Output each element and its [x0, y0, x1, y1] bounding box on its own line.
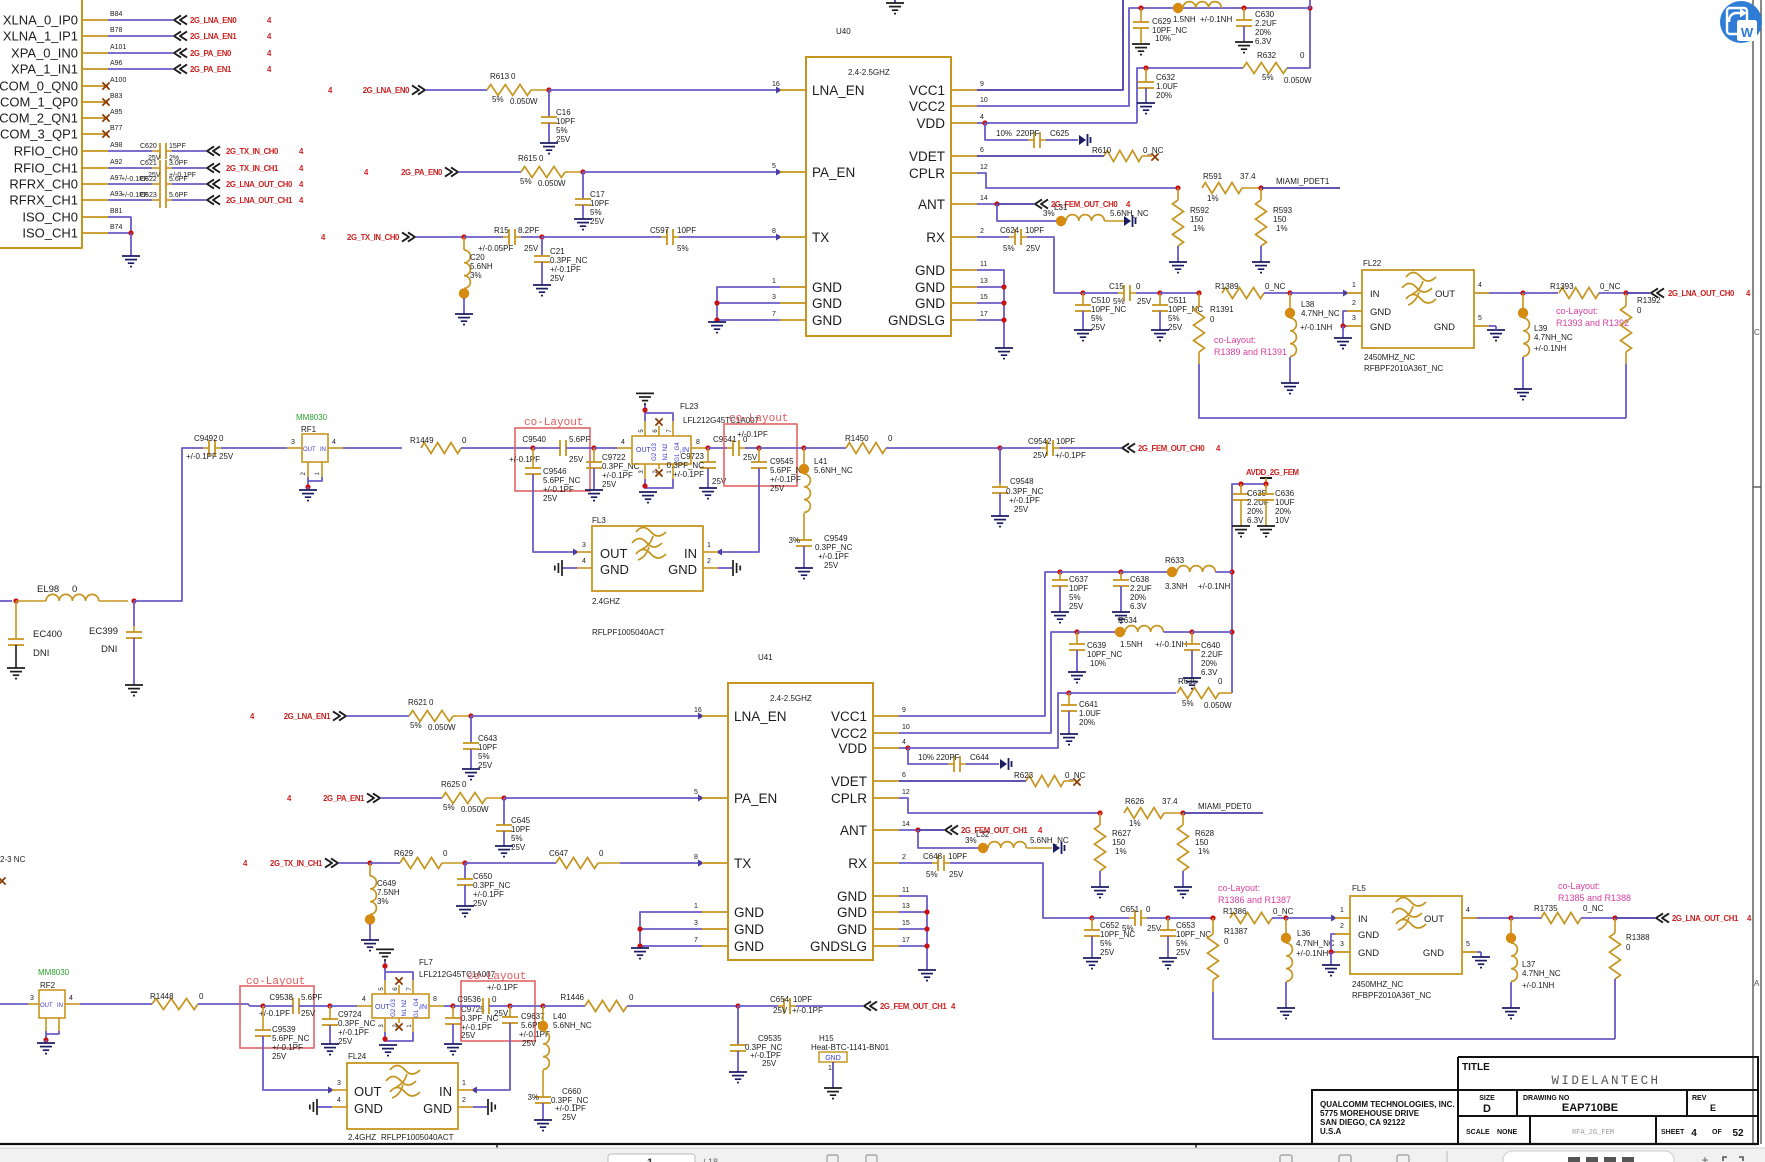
svg-text:25V: 25V: [550, 274, 565, 283]
svg-text:DNI: DNI: [33, 648, 49, 659]
resistor R1450: [846, 443, 886, 454]
wire: [1192, 631, 1232, 633]
svg-text:GND: GND: [1358, 930, 1379, 941]
svg-text:1.5NH: 1.5NH: [1120, 640, 1143, 649]
net MIAMI_PDET0: [1183, 812, 1263, 814]
ground: [1159, 957, 1177, 959]
wire: [240, 1004, 263, 1006]
wire GND bus: [640, 912, 702, 948]
svg-text:+/-0.1NH: +/-0.1NH: [1300, 323, 1332, 332]
wire: [1160, 292, 1199, 294]
ground: [1074, 329, 1092, 331]
node: [1196, 290, 1201, 295]
ground: [1277, 1007, 1295, 1009]
wire: [985, 123, 1028, 140]
svg-text:+/-0.1PF: +/-0.1PF: [338, 1028, 369, 1037]
svg-text:+/-0.1NH: +/-0.1NH: [1296, 949, 1328, 958]
svg-text:R635: R635: [1178, 677, 1198, 686]
ground: [1112, 611, 1130, 613]
capacitor C651: [1134, 910, 1136, 926]
node: [1508, 915, 1513, 920]
resistor R615: [521, 167, 565, 178]
svg-text:RFRX_CH0: RFRX_CH0: [9, 177, 78, 192]
svg-text:2G_PA_EN1: 2G_PA_EN1: [190, 65, 232, 74]
wire FL5 gnd5: [1477, 951, 1481, 953]
svg-text:XLNA_1_IP1: XLNA_1_IP1: [3, 29, 78, 44]
wire: [918, 830, 978, 848]
wire: [1168, 917, 1213, 919]
svg-text:RF2: RF2: [40, 981, 56, 990]
capacitor C652: [1091, 918, 1093, 930]
node: [801, 445, 806, 450]
svg-text:B78: B78: [110, 27, 123, 34]
svg-text:0.3PF_NC: 0.3PF_NC: [550, 256, 588, 265]
svg-text:+/-0.1PF: +/-0.1PF: [487, 983, 518, 992]
capacitor C9535: [737, 1006, 739, 1045]
svg-text:1%: 1%: [1129, 819, 1141, 828]
svg-text:PA_EN: PA_EN: [734, 791, 777, 806]
svg-text:VCC2: VCC2: [831, 726, 867, 741]
wire: [908, 748, 948, 764]
svg-text:C625: C625: [1050, 129, 1070, 138]
wire: [966, 763, 999, 765]
svg-text:GND: GND: [1358, 948, 1379, 959]
svg-text:3: 3: [291, 439, 295, 446]
wire: [582, 205, 584, 219]
capacitor C15: [1123, 285, 1125, 301]
svg-text:C17: C17: [590, 190, 605, 199]
svg-text:C630: C630: [1255, 10, 1275, 19]
node: [637, 926, 642, 931]
ground: [361, 939, 379, 941]
svg-text:2.2UF: 2.2UF: [1255, 19, 1277, 28]
svg-text:0: 0: [599, 849, 604, 858]
svg-text:2: 2: [980, 228, 984, 235]
svg-text:R615: R615: [518, 154, 538, 163]
svg-text:9: 9: [902, 707, 906, 714]
inductor C649 7.5NH: [369, 863, 371, 876]
wire: [950, 863, 1092, 918]
svg-text:GND: GND: [600, 562, 629, 577]
svg-text:52: 52: [1732, 1128, 1744, 1139]
node: [367, 860, 372, 865]
svg-text:RX: RX: [926, 230, 945, 245]
svg-text:6: 6: [980, 147, 984, 154]
wire ANT U40: [977, 203, 997, 205]
ground: [1060, 733, 1078, 735]
frame zone tick: [1753, 486, 1761, 488]
svg-text:C643: C643: [478, 734, 498, 743]
svg-text:2G_TX_IN_CH0: 2G_TX_IN_CH0: [226, 147, 279, 156]
svg-text:6.3V: 6.3V: [1201, 668, 1218, 677]
capacitor C9545: [758, 448, 760, 462]
node: [1210, 915, 1215, 920]
frame zone tick bottom: [496, 1144, 498, 1149]
svg-text:1: 1: [647, 1157, 653, 1162]
svg-text:25V: 25V: [1069, 602, 1084, 611]
wire: [718, 567, 732, 569]
svg-text:C9549: C9549: [824, 534, 848, 543]
svg-text:4: 4: [1691, 1128, 1697, 1139]
svg-text:ISO_CH1: ISO_CH1: [22, 226, 78, 241]
svg-text:5%: 5%: [492, 95, 504, 104]
ground: [995, 347, 1013, 349]
svg-text:0_NC: 0_NC: [1143, 146, 1164, 155]
svg-text:+/-0.1PF: +/-0.1PF: [1009, 496, 1040, 505]
wire: [1615, 917, 1655, 919]
wire: [718, 468, 759, 552]
resistor R1391: [1198, 293, 1200, 306]
node: [1189, 629, 1194, 634]
svg-text:GND: GND: [1370, 322, 1391, 333]
svg-text:0: 0: [539, 154, 544, 163]
svg-text:GND: GND: [668, 562, 697, 577]
svg-text:IN: IN: [57, 1003, 63, 1009]
svg-text:G2 G3: G2 G3: [391, 999, 397, 1017]
wire: [533, 474, 577, 552]
svg-text:2G_LNA_OUT_CH0: 2G_LNA_OUT_CH0: [226, 180, 293, 189]
svg-text:FL7: FL7: [419, 958, 433, 967]
chassis ground: [1053, 843, 1060, 853]
inductor L37: [1510, 918, 1512, 933]
wire: [470, 749, 472, 769]
svg-text:5%: 5%: [410, 721, 422, 730]
wire: [473, 1023, 510, 1090]
capacitor C635: [1240, 484, 1242, 494]
svg-text:OUT: OUT: [40, 1003, 53, 1009]
svg-text:RF1: RF1: [301, 425, 317, 434]
svg-text:2G_FEM_OUT_CH1: 2G_FEM_OUT_CH1: [880, 1002, 947, 1011]
node: [580, 169, 585, 174]
svg-text:C641: C641: [1079, 700, 1099, 709]
svg-text:2G_PA_EN0: 2G_PA_EN0: [190, 49, 232, 58]
node: [1001, 300, 1006, 305]
svg-text:25V: 25V: [762, 1059, 777, 1068]
capacitor C9723: [707, 448, 709, 462]
svg-text:25V: 25V: [473, 899, 488, 908]
no-connect: [655, 418, 662, 425]
resistor R629: [400, 858, 442, 869]
capacitor C21: [541, 237, 543, 256]
chassis ground: [1079, 135, 1086, 145]
svg-text:C15: C15: [1109, 282, 1124, 291]
svg-text:2: 2: [462, 1097, 466, 1104]
off-page net 2G_LNA_EN0: [174, 15, 181, 24]
svg-text:+/-0.1NH: +/-0.1NH: [1522, 981, 1554, 990]
wire: [172, 150, 206, 152]
svg-text:0: 0: [511, 72, 516, 81]
wire: [1489, 292, 1523, 294]
wire: [1027, 237, 1083, 293]
wire FL23 top: [645, 413, 673, 421]
capacitor C9548: [999, 448, 1001, 483]
svg-text:GND: GND: [812, 296, 842, 311]
node: [1138, 5, 1143, 10]
svg-text:0.050W: 0.050W: [1284, 76, 1312, 85]
wire FL22 gnd5: [1489, 325, 1496, 327]
svg-text:15PF: 15PF: [169, 143, 186, 150]
svg-text:37.4: 37.4: [1162, 797, 1178, 806]
title block: [1312, 1057, 1758, 1144]
svg-text:5.6PF: 5.6PF: [169, 176, 188, 183]
svg-text:DRAWING NO: DRAWING NO: [1523, 1095, 1570, 1102]
wire CPLR U41: [899, 798, 1100, 813]
off-page net 2G_LNA_OUT_CH0: [207, 179, 214, 188]
wire: [369, 924, 371, 940]
svg-text:2G_PA_EN0: 2G_PA_EN0: [401, 168, 443, 177]
resistor R623: [1026, 776, 1064, 787]
svg-text:10%: 10%: [1155, 34, 1171, 43]
wire: [1147, 917, 1168, 919]
svg-text:25V: 25V: [1137, 297, 1152, 306]
ground: [699, 487, 717, 489]
off-page net 2G_LNA_EN1: [174, 31, 181, 40]
svg-text:2G_TX_IN_CH1: 2G_TX_IN_CH1: [270, 859, 323, 868]
capacitor C660: [542, 1070, 544, 1097]
capacitor EC400: [15, 601, 17, 639]
wire VCC1 U41: [899, 572, 1060, 716]
resistor R632: [1243, 63, 1287, 74]
node: [1097, 810, 1102, 815]
ground: [1252, 261, 1270, 263]
svg-text:3: 3: [30, 995, 34, 1002]
svg-text:IN: IN: [684, 546, 697, 561]
svg-text:A100: A100: [110, 77, 126, 84]
ground: [824, 1087, 842, 1089]
svg-text:C649: C649: [377, 879, 397, 888]
inductor L39: [1522, 293, 1524, 308]
node: [1328, 949, 1333, 954]
svg-text:5%: 5%: [1003, 244, 1015, 253]
capacitor C9541: [732, 440, 734, 456]
off-page net 2G_FEM_OUT_CH0: [1122, 443, 1129, 452]
node: [1612, 915, 1617, 920]
svg-text:10UF: 10UF: [1275, 498, 1295, 507]
svg-text:REV: REV: [1692, 1095, 1707, 1102]
svg-text:GND: GND: [915, 263, 945, 278]
svg-text:2G_TX_IN_CH0: 2G_TX_IN_CH0: [347, 233, 400, 242]
wire FL22 gnd pins: [1343, 311, 1347, 326]
no-connect: [102, 130, 109, 137]
svg-text:Heat-BTC-1141-BN01: Heat-BTC-1141-BN01: [811, 1043, 890, 1052]
svg-text:R593: R593: [1273, 206, 1293, 215]
wire: [804, 447, 846, 449]
svg-text:2G_PA_EN1: 2G_PA_EN1: [323, 794, 365, 803]
svg-text:+/-0.1PF: +/-0.1PF: [272, 1043, 303, 1052]
capacitor C629: [1140, 8, 1142, 22]
svg-text:3.0PF: 3.0PF: [169, 160, 188, 167]
ground: [729, 1071, 747, 1073]
wire FL23 bottom: [645, 479, 673, 488]
wire: [745, 447, 759, 449]
svg-text:25V: 25V: [522, 1039, 537, 1048]
wire: [108, 150, 152, 152]
wire: [473, 1106, 487, 1108]
svg-text:C621: C621: [140, 160, 157, 167]
resistor R1449: [421, 443, 461, 454]
svg-text:10%: 10%: [918, 753, 934, 762]
svg-text:L32: L32: [976, 830, 990, 839]
svg-text:4.7NH_NC: 4.7NH_NC: [1301, 309, 1340, 318]
svg-text:8.2PF: 8.2PF: [518, 226, 539, 235]
ground: [918, 969, 936, 971]
svg-text:25V: 25V: [602, 480, 617, 489]
wire: [1213, 992, 1615, 1039]
svg-text:RFRX_CH1: RFRX_CH1: [9, 193, 78, 208]
node: [530, 445, 535, 450]
svg-text:A92: A92: [110, 159, 123, 166]
svg-text:IN: IN: [1358, 914, 1368, 925]
svg-text:25V: 25V: [1168, 323, 1183, 332]
capacitor C9724: [329, 1006, 331, 1019]
wire: [1069, 692, 1176, 694]
wire: [108, 167, 152, 169]
U41 pin stubs right: [873, 715, 899, 717]
svg-text:N1 N2: N1 N2: [663, 443, 669, 461]
svg-text:co-Layout:: co-Layout:: [1218, 883, 1260, 893]
resistor R627: [1099, 813, 1101, 825]
svg-text:1: 1: [828, 1065, 832, 1072]
svg-text:15: 15: [980, 294, 988, 301]
FL3 pin stubs: [577, 551, 592, 553]
svg-text:L36: L36: [1297, 929, 1311, 938]
svg-text:IN: IN: [1370, 289, 1380, 300]
svg-text:37.4: 37.4: [1240, 172, 1256, 181]
wire: [108, 232, 131, 234]
resistor R625: [442, 793, 486, 804]
svg-text:2G_LNA_EN1: 2G_LNA_EN1: [284, 712, 331, 721]
svg-text:0_NC: 0_NC: [1265, 282, 1286, 291]
wire: [108, 52, 173, 54]
svg-text:10PF_NC: 10PF_NC: [1091, 305, 1126, 314]
wire: [172, 183, 206, 185]
svg-text:R1449: R1449: [410, 436, 434, 445]
svg-text:4: 4: [362, 996, 366, 1003]
svg-text:5.6NH_NC: 5.6NH_NC: [1110, 209, 1149, 218]
svg-text:+/-0.1PF: +/-0.1PF: [1055, 451, 1086, 460]
svg-text:1: 1: [1352, 282, 1356, 289]
svg-text:GND: GND: [423, 1101, 452, 1116]
svg-text:0: 0: [219, 434, 224, 443]
svg-text:4: 4: [69, 995, 73, 1002]
capacitor C16: [548, 90, 550, 117]
node: [507, 1003, 512, 1008]
resistor R1388: [1614, 918, 1616, 933]
svg-text:R1388: R1388: [1626, 933, 1650, 942]
wire: [314, 1005, 330, 1007]
svg-text:C636: C636: [1275, 489, 1295, 498]
capacitor C9492: [208, 440, 210, 456]
svg-text:R632: R632: [1257, 51, 1277, 60]
wire: [706, 447, 708, 449]
ground: [456, 905, 474, 907]
capacitor C9536: [482, 998, 484, 1014]
node: [539, 234, 544, 239]
node: [450, 1003, 455, 1008]
ground: [639, 491, 657, 493]
svg-text:OUT: OUT: [303, 447, 316, 453]
svg-text:co-Layout: co-Layout: [729, 413, 788, 425]
ground: [1232, 525, 1250, 527]
svg-text:2.2UF: 2.2UF: [1201, 650, 1223, 659]
svg-text:0_NC: 0_NC: [1600, 282, 1621, 291]
svg-text:0: 0: [1300, 51, 1305, 60]
svg-text:+/-0.1NH: +/-0.1NH: [1155, 640, 1187, 649]
svg-text:GND: GND: [1423, 948, 1444, 959]
svg-text:0: 0: [1218, 677, 1223, 686]
FL23 pin stubs: [617, 447, 632, 449]
svg-text:16: 16: [772, 81, 780, 88]
svg-text:OUT: OUT: [1435, 289, 1455, 300]
resistor R1448: [152, 999, 198, 1010]
svg-text:+/-0.1PF: +/-0.1PF: [555, 1104, 586, 1113]
wire VCC1 U40: [977, 0, 1123, 90]
svg-text:OUT: OUT: [354, 1084, 382, 1099]
svg-text:C9540: C9540: [522, 435, 546, 444]
svg-text:MIAMI_PDET0: MIAMI_PDET0: [1198, 802, 1252, 811]
svg-text:EAP710BE: EAP710BE: [1562, 1102, 1618, 1114]
capacitor C643: [470, 716, 472, 743]
svg-text:1: 1: [772, 278, 776, 285]
svg-text:4: 4: [902, 739, 906, 746]
svg-text:25V: 25V: [524, 244, 539, 253]
svg-text:25V: 25V: [569, 455, 584, 464]
FL22 pin stubs: [1347, 292, 1362, 294]
node: [705, 445, 710, 450]
svg-text:SWCOM_0_QN0: SWCOM_0_QN0: [0, 79, 78, 94]
capacitor C623: [159, 192, 161, 208]
wire: [134, 448, 203, 601]
svg-text:4.7NH_NC: 4.7NH_NC: [1534, 333, 1573, 342]
svg-text:R15: R15: [494, 226, 509, 235]
wire: [594, 447, 617, 449]
svg-text:C597: C597: [650, 226, 670, 235]
svg-text:C640: C640: [1201, 641, 1221, 650]
svg-text:10PF: 10PF: [1025, 226, 1044, 235]
wire: [997, 204, 1056, 221]
svg-text:0.3PF_NC: 0.3PF_NC: [338, 1019, 376, 1028]
svg-text:C9535: C9535: [758, 1034, 782, 1043]
wire top rail: [1178, 7, 1310, 9]
svg-text:A: A: [1754, 979, 1760, 988]
inductor R634 1.5NH: [1115, 627, 1125, 637]
wire: [339, 862, 370, 864]
wire: [459, 171, 521, 173]
svg-text:0: 0: [1224, 937, 1229, 946]
wire: [108, 183, 152, 185]
svg-text:U41: U41: [758, 653, 773, 662]
svg-text:2: 2: [1352, 300, 1356, 307]
svg-text:FL22: FL22: [1363, 259, 1382, 268]
svg-text:3: 3: [694, 920, 698, 927]
resistor R591: [1202, 183, 1242, 194]
node: [260, 1003, 265, 1008]
wire AVDD rail: [1232, 484, 1266, 693]
svg-text:10%: 10%: [996, 129, 1012, 138]
inductor L36: [1285, 918, 1287, 933]
svg-text:C9538: C9538: [269, 993, 293, 1002]
svg-text:OUT: OUT: [600, 546, 628, 561]
svg-text:GND: GND: [734, 905, 764, 920]
ground side: [487, 1099, 489, 1115]
svg-text:AVDD_2G_FEM: AVDD_2G_FEM: [1246, 468, 1299, 477]
wire RX U41: [899, 862, 932, 864]
svg-text:25V: 25V: [461, 1031, 476, 1040]
svg-text:C651: C651: [1120, 905, 1140, 914]
svg-text:SAN DIEGO, CA 92122: SAN DIEGO, CA 92122: [1320, 1118, 1406, 1127]
svg-text:0: 0: [1210, 315, 1215, 324]
svg-text:FL5: FL5: [1352, 884, 1366, 893]
